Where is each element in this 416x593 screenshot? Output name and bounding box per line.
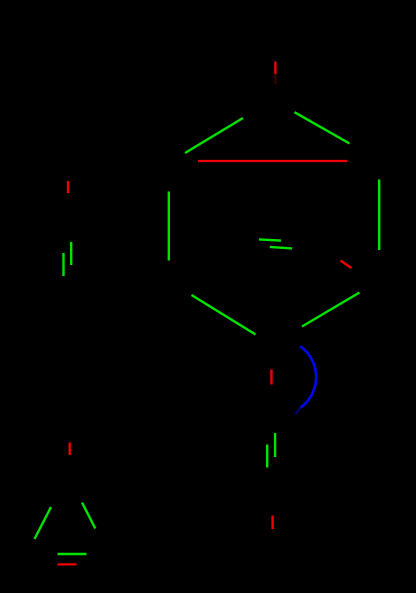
bottom ring left edge green	[35, 507, 52, 539]
bond C3-C4 lower-left diagonal green	[192, 295, 256, 335]
vinyl double bond right segment green	[274, 433, 276, 457]
double bond inner dash lower green	[270, 247, 292, 249]
bottom ring O red tick	[68, 443, 70, 456]
bond chain O red tick lower	[271, 516, 273, 530]
bottom ring base red horizontal	[58, 563, 77, 565]
bond C6-C5 ring right vertical green	[378, 180, 380, 251]
bottom ring right edge green	[82, 503, 95, 529]
bond C4-C5 lower-right diagonal green	[302, 293, 360, 327]
bond C2-O red horizontal	[198, 160, 348, 162]
wire apex fade top	[274, 74, 276, 84]
bond C2-C3 ring left vertical green	[168, 192, 170, 261]
bond C1-C2 roof left green	[185, 118, 243, 153]
bond C5-O red short diagonal	[341, 261, 352, 269]
left fragment double bond left green	[62, 253, 64, 276]
bond C1-C6 roof right green	[295, 112, 350, 143]
bond C4-O ester red tick	[270, 370, 272, 385]
left fragment double bond right green	[70, 242, 72, 265]
blue arc fading tail	[295, 408, 300, 415]
bond O1 carbonyl top red tick	[274, 62, 276, 75]
vinyl double bond left segment green	[266, 445, 268, 468]
left fragment O red tick	[67, 181, 69, 193]
double bond inner dash upper green	[259, 239, 281, 240]
bottom ring base green horizontal	[58, 553, 87, 556]
blue arc ring closure N	[300, 346, 316, 407]
